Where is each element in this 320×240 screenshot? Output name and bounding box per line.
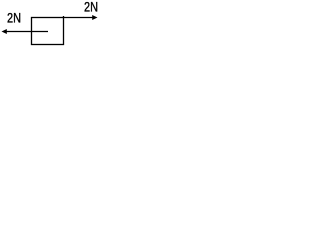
wire: right force arrow shaft (extension of box top edge): [64, 17, 94, 19]
svg-text:2N: 2N: [7, 10, 21, 26]
wire: right box edge overshoot above top edge: [63, 16, 65, 18]
svg-text:2N: 2N: [84, 0, 98, 15]
right force arrowhead: [92, 15, 97, 20]
left force arrowhead: [2, 29, 7, 34]
wire: left force arrow shaft: [6, 31, 48, 33]
box (block): [32, 18, 64, 45]
